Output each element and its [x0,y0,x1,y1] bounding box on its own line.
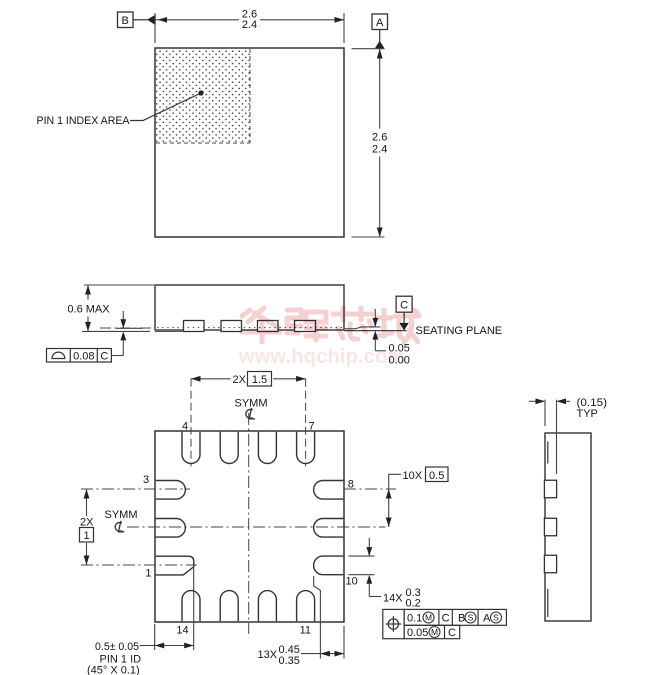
svg-text:10X: 10X [403,470,423,482]
svg-text:(45° X 0.1): (45° X 0.1) [87,665,140,675]
datum C feature triangle [399,323,408,331]
svg-text:S: S [493,613,499,623]
standoff arrows left [122,311,124,328]
svg-text:2X: 2X [80,517,94,529]
svg-text:7: 7 [309,421,315,433]
dimension 2.6/2.4 horizontal [155,19,239,21]
svg-text:10: 10 [346,576,358,588]
side lead bump 3 [544,555,556,573]
svg-text:4: 4 [182,421,188,433]
svg-text:M: M [425,613,432,623]
svg-text:2.6: 2.6 [372,132,387,144]
side view pin 4 [295,321,316,332]
svg-text:0.5± 0.05: 0.5± 0.05 [95,641,139,653]
(0.15) TYP dimension [544,400,546,426]
pin 10 jog extension line [314,576,321,659]
extension line bottom edge extended right [352,236,385,238]
svg-text:0.2: 0.2 [406,598,421,610]
svg-text:0.6 MAX: 0.6 MAX [67,304,110,316]
package body outline (bottom view) [155,431,344,622]
package bottom short line (left standoff) [116,327,143,329]
extension line package left edge (below) [154,624,156,650]
svg-text:11: 11 [300,625,311,637]
svg-text:S: S [468,613,474,623]
svg-text:14X: 14X [383,593,403,605]
svg-text:SYMM: SYMM [105,509,138,521]
dimension 13X 0.45/0.35 [301,653,320,655]
centerline glyph top [246,408,255,419]
svg-text:0.05: 0.05 [407,627,428,639]
dimension 2.6/2.4 vertical [379,49,381,129]
position tolerance frame row 1 [383,609,404,638]
svg-text:TYP: TYP [577,408,598,420]
0.6 MAX dimension [84,284,154,286]
datum A label [372,14,388,30]
svg-text:C: C [100,351,108,363]
extension line left (top view) [154,13,156,43]
pin 10 (right) [314,556,344,575]
svg-text:1.5: 1.5 [252,374,267,386]
dash-dot line left of side view [100,327,154,329]
dotted lead line (side view) [157,327,343,329]
seating plane line right [344,330,407,332]
svg-text:0.5: 0.5 [429,470,444,482]
dimension 2X 1.5 (top) [190,379,192,467]
pin 5 (top) [220,432,238,464]
svg-text:M: M [431,627,438,637]
svg-text:2X: 2X [233,374,247,386]
pin 6 (top) [258,432,276,464]
position tolerance frame row 2 [404,625,460,638]
svg-text:0.08: 0.08 [73,351,94,363]
datum B label [118,12,134,28]
pin 13 (bottom) [220,591,238,622]
svg-text:8: 8 [348,479,354,491]
pin 7 (top) [297,432,315,464]
dimension 10X 0.5 (right) [344,488,396,490]
svg-text:C: C [448,627,456,639]
svg-text:A: A [483,613,491,625]
svg-text:1: 1 [83,530,89,542]
svg-text:14: 14 [176,625,188,637]
svg-text:2.4: 2.4 [242,19,257,31]
top lead strip [547,442,549,464]
svg-text:13X: 13X [258,649,278,661]
pin 9 (right) [314,519,344,538]
svg-text:3: 3 [143,474,149,486]
dimension 0.5 +/- 0.05 (pin 1 ID) [140,645,155,647]
pin 12 (bottom) [258,591,276,622]
bottom lead strip [547,589,549,617]
extension line right (top view) [343,13,345,43]
watermark chinese characters [242,308,419,342]
position symbol [388,619,398,629]
side view pin 1 [184,321,205,332]
horizontal centerline [127,526,386,528]
pin 2 (left) [156,519,186,538]
pin 1 (left, chamfered pin-1 ID) [156,556,194,575]
pin 8 (right) [314,481,344,500]
centerline glyph left [115,521,124,532]
package body outline (top view) [155,48,344,237]
datum A feature triangle [375,41,385,49]
svg-text:2.4: 2.4 [372,144,387,156]
package body outline (side view) [155,285,344,330]
svg-text:1: 1 [145,568,151,580]
svg-text:PIN 1 INDEX AREA: PIN 1 INDEX AREA [37,115,131,127]
datum C label [396,296,412,312]
svg-text:B: B [458,613,465,625]
side view pin 3 [258,321,279,332]
svg-text:0.1: 0.1 [407,613,422,625]
profile tolerance frame 0.08 C [47,349,112,363]
pin 3 (left) [156,481,186,500]
extension line pin1 tip (below) [193,567,195,650]
side lead bump 1 [544,480,556,498]
pin 11 (bottom) [297,591,315,622]
side lead bump 2 [544,518,556,536]
pin 14 (bottom) [182,591,200,622]
package body outline (right side view) [545,433,591,621]
datum B feature triangle [147,15,156,26]
dimension 2X 1 (left) [81,488,190,490]
pin 1 index area (dotted region) [156,49,250,143]
svg-text:C: C [400,300,408,312]
svg-text:A: A [376,17,384,29]
side view pin 2 [221,321,242,332]
svg-text:www.hqchip.com: www.hqchip.com [238,346,406,368]
vertical centerline [248,413,250,634]
svg-text:0.35: 0.35 [279,655,300,667]
extension line package right edge (below) [343,626,345,659]
standoff dimension 0.05/0.00 [374,309,376,327]
dimension 14X 0.3/0.2 (right) [349,555,375,557]
pin 4 (top) [182,432,200,464]
extension line top edge extended right [352,48,385,50]
svg-text:B: B [122,15,129,27]
svg-text:C: C [442,613,450,625]
svg-text:SEATING PLANE: SEATING PLANE [416,325,503,337]
